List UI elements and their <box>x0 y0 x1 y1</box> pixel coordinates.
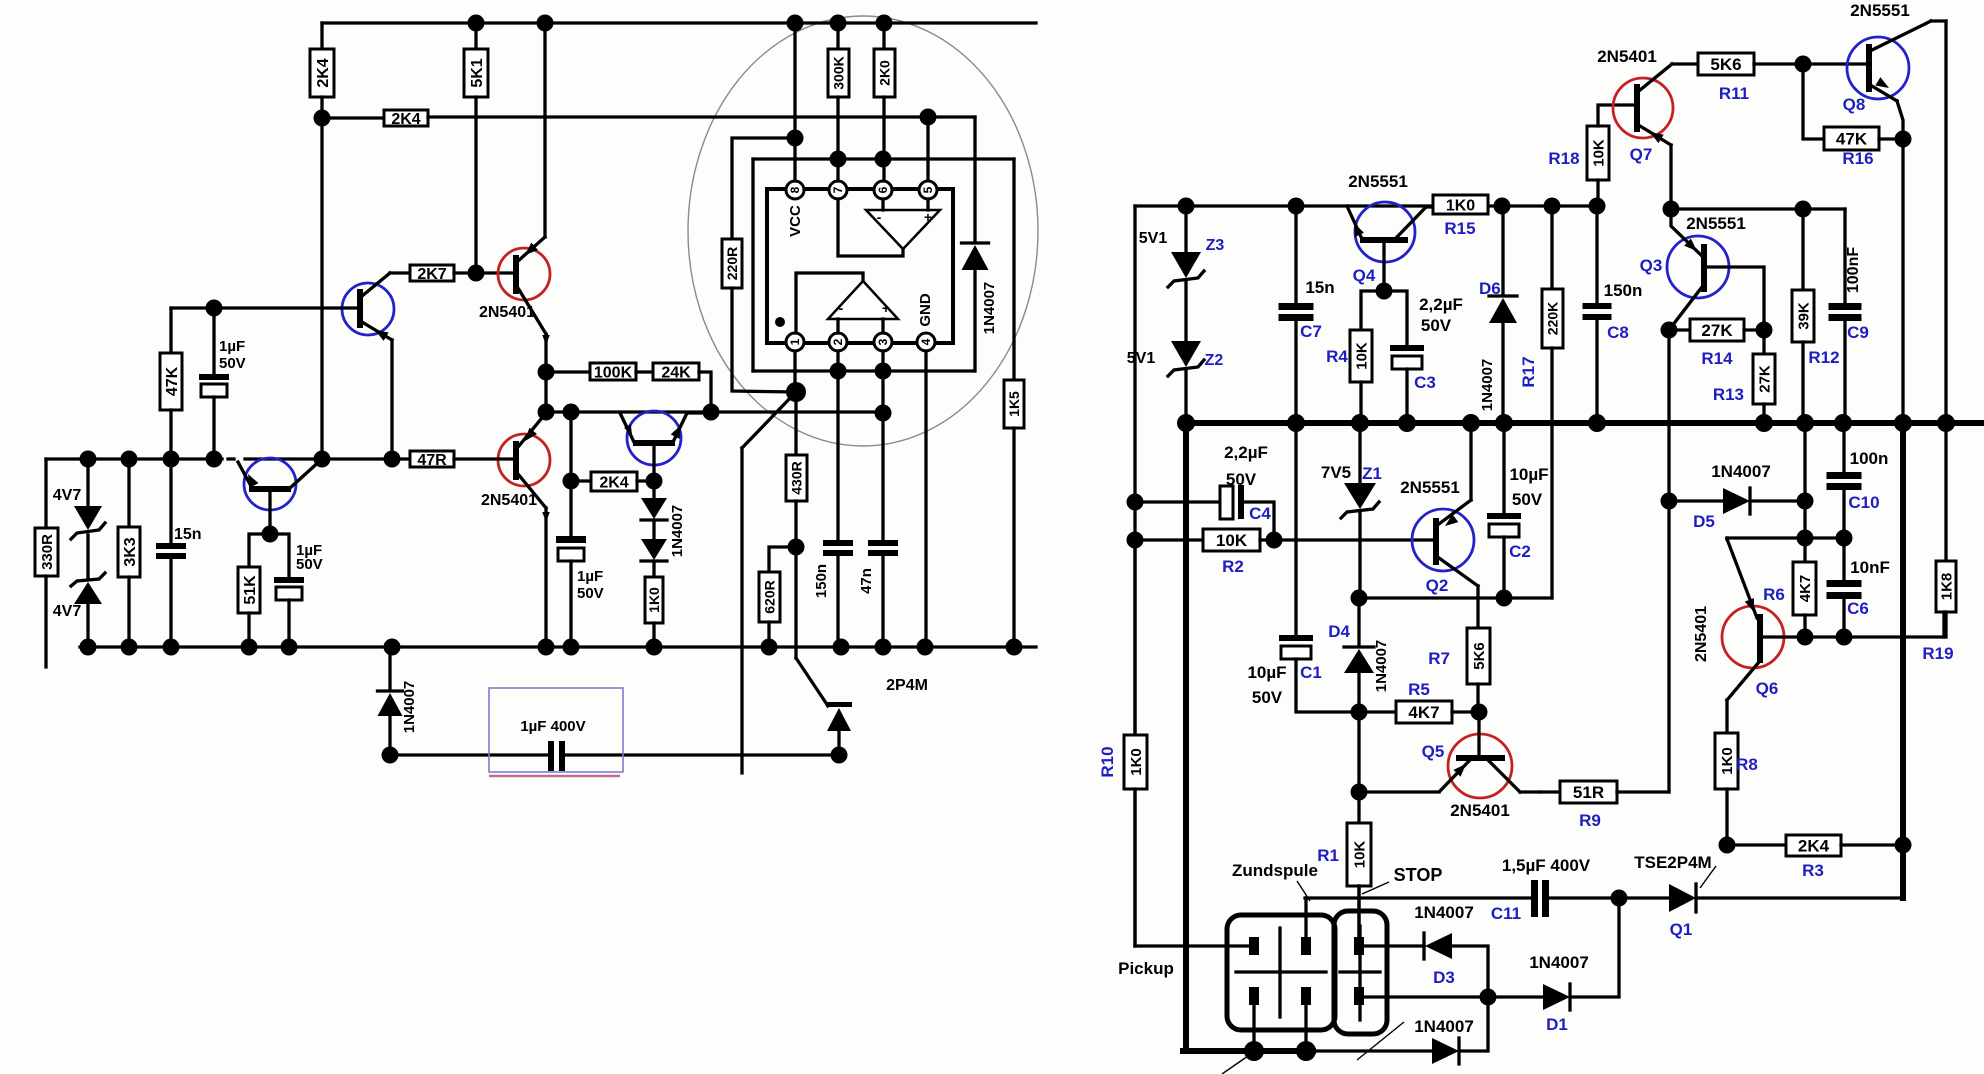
svg-text:D6: D6 <box>1479 279 1501 298</box>
wire Q3 collector to D5 and R9 <box>1661 330 1678 792</box>
svg-text:1N4007: 1N4007 <box>401 681 418 734</box>
svg-text:C8: C8 <box>1607 323 1629 342</box>
wire top rail right schematic <box>1135 198 1606 215</box>
svg-text:2N5551: 2N5551 <box>1850 1 1910 20</box>
svg-text:4: 4 <box>919 338 933 345</box>
svg-text:Q6: Q6 <box>1756 679 1779 698</box>
svg-text:D1: D1 <box>1546 1015 1568 1034</box>
zener 4V7 upper <box>53 459 105 539</box>
svg-text:1,5µF 400V: 1,5µF 400V <box>1502 856 1591 875</box>
svg-text:15n: 15n <box>174 526 202 543</box>
svg-text:100K: 100K <box>594 364 633 381</box>
wire trigger diagonal from pin1 <box>742 392 796 773</box>
svg-text:3: 3 <box>876 338 890 345</box>
svg-text:10K: 10K <box>1351 841 1368 869</box>
wire thick ground left leg <box>1183 423 1432 1051</box>
svg-text:1K0: 1K0 <box>1719 747 1736 775</box>
svg-text:50V: 50V <box>1226 470 1257 489</box>
pin 5 <box>919 181 937 199</box>
svg-text:C7: C7 <box>1300 322 1322 341</box>
diode D1 1N4007 <box>1488 898 1619 1034</box>
capacitor C10 100n <box>1827 423 1889 538</box>
svg-text:2N5551: 2N5551 <box>1686 214 1746 233</box>
svg-text:1N4007: 1N4007 <box>1373 640 1390 693</box>
svg-text:D3: D3 <box>1433 968 1455 987</box>
resistor R4 10K <box>1326 291 1384 423</box>
svg-text:4K7: 4K7 <box>1408 703 1439 722</box>
label Zundspule with callout <box>1232 861 1318 901</box>
svg-text:2N5551: 2N5551 <box>1348 172 1408 191</box>
svg-text:R10: R10 <box>1098 746 1117 777</box>
svg-text:TSE2P4M: TSE2P4M <box>1634 853 1711 872</box>
svg-text:8: 8 <box>788 186 802 193</box>
resistor 47R <box>410 451 513 469</box>
svg-text:5K6: 5K6 <box>1710 55 1741 74</box>
svg-text:1K0: 1K0 <box>1128 748 1145 776</box>
svg-text:27K: 27K <box>1701 321 1733 340</box>
svg-text:2K7: 2K7 <box>417 266 446 283</box>
zener Z3 5V1 <box>1139 206 1225 341</box>
resistor R10 1K0 <box>1098 540 1147 946</box>
transistor T2 red 2N5401 <box>479 23 550 372</box>
svg-text:1K5: 1K5 <box>1006 391 1022 417</box>
node 430R-620R <box>788 539 805 556</box>
svg-text:1N4007: 1N4007 <box>669 505 686 558</box>
svg-text:C4: C4 <box>1249 504 1271 523</box>
op-amp U2 lower triangle <box>796 273 898 333</box>
svg-text:R17: R17 <box>1519 356 1538 387</box>
resistor 3K3 <box>118 459 140 647</box>
wire STOP line y898 <box>1305 896 1531 899</box>
svg-text:2K4: 2K4 <box>599 474 628 491</box>
pin 1 <box>786 333 804 351</box>
resistor 24K <box>636 363 711 412</box>
transistor Q7 2N5401 red <box>1597 47 1698 209</box>
wire pin4 GND down <box>924 351 927 647</box>
pin 6 <box>874 181 892 199</box>
wire pin2-pin3 gnd-side node y371 <box>753 363 974 380</box>
svg-text:2K0: 2K0 <box>877 60 893 86</box>
svg-text:150n: 150n <box>1604 281 1643 300</box>
svg-text:7: 7 <box>831 186 845 193</box>
wire node y598 <box>1351 590 1553 607</box>
node 2K7-T2 base <box>468 265 485 282</box>
svg-text:1N4007: 1N4007 <box>1711 462 1771 481</box>
svg-text:R11: R11 <box>1719 84 1749 103</box>
svg-text:4K7: 4K7 <box>1797 575 1814 603</box>
transistor Q5 2N5401 red <box>1422 712 1540 820</box>
svg-text:15n: 15n <box>1305 278 1334 297</box>
capacitor C3 2,2uF 50V <box>1384 291 1463 423</box>
wire Q8 collector to R19 <box>1944 21 1947 561</box>
resistor R18 10K <box>1548 105 1633 206</box>
svg-text:4V7: 4V7 <box>53 603 82 620</box>
svg-text:10µF: 10µF <box>1247 663 1286 682</box>
wire VCC pin8 to top rail <box>787 23 804 181</box>
thyristor Q1 TSE2P4M <box>1619 853 1903 939</box>
capacitor C7 15n <box>1279 206 1335 423</box>
svg-text:D5: D5 <box>1693 512 1715 531</box>
pin 3 <box>874 333 892 351</box>
svg-text:1K8: 1K8 <box>1938 573 1955 601</box>
capacitor 15n <box>156 459 202 647</box>
svg-text:2N5401: 2N5401 <box>479 304 535 321</box>
svg-text:430R: 430R <box>789 461 805 494</box>
resistor R3 2K4 <box>1727 835 1903 880</box>
svg-text:R1: R1 <box>1317 846 1339 865</box>
diode D3 1N4007 <box>1363 903 1488 997</box>
resistor 2K4 vertical top-left <box>310 23 334 118</box>
zener Z2 5V1 <box>1127 341 1224 423</box>
capacitor C11 1,5uF 400V <box>1491 856 1628 923</box>
pin 2 <box>829 333 847 351</box>
resistor 47K <box>160 308 182 459</box>
svg-text:C9: C9 <box>1847 323 1869 342</box>
svg-text:7V5: 7V5 <box>1321 463 1351 482</box>
svg-text:27K: 27K <box>1756 365 1773 393</box>
svg-text:Q1: Q1 <box>1670 920 1693 939</box>
svg-text:10K: 10K <box>1590 139 1607 167</box>
resistor 2K4 horizontal <box>322 110 428 128</box>
svg-text:2K4: 2K4 <box>1798 837 1830 856</box>
svg-text:330R: 330R <box>39 534 56 570</box>
svg-text:5V1: 5V1 <box>1127 350 1156 367</box>
svg-text:R18: R18 <box>1548 149 1579 168</box>
svg-text:2,2µF: 2,2µF <box>1224 443 1268 462</box>
svg-text:C6: C6 <box>1847 599 1869 618</box>
diode D6 1N4007 <box>1479 206 1517 423</box>
resistor 2K4 at T3 base <box>563 412 663 491</box>
svg-text:Pickup: Pickup <box>1118 959 1174 978</box>
resistor R6 4K7 <box>1763 501 1816 646</box>
diode 1N4007 pair at T3 <box>641 481 686 577</box>
svg-text:C10: C10 <box>1848 493 1879 512</box>
wire D1 node <box>1363 989 1497 1006</box>
svg-text:2N5401: 2N5401 <box>481 492 537 509</box>
svg-text:51R: 51R <box>1573 783 1604 802</box>
capacitor 150n <box>813 351 853 647</box>
svg-text:1N4007: 1N4007 <box>1414 903 1474 922</box>
svg-text:10µF: 10µF <box>1509 465 1548 484</box>
diode 1N4007 bottom-left <box>378 647 419 764</box>
svg-text:C11: C11 <box>1491 904 1521 923</box>
pin 7 <box>829 181 847 199</box>
svg-text:2: 2 <box>831 338 845 345</box>
wire bottom rail left schematic <box>80 639 1037 656</box>
capacitor C1 10uF 50V <box>1247 423 1359 712</box>
capacitor 47n <box>858 351 898 647</box>
resistor R2 10K <box>1135 529 1433 576</box>
capacitor C6 10nF <box>1827 538 1890 646</box>
wire base rail y459 <box>46 451 410 468</box>
svg-text:47K: 47K <box>1836 130 1868 149</box>
svg-text:Q7: Q7 <box>1630 145 1653 164</box>
resistor 5K1 <box>464 23 488 273</box>
svg-text:220K: 220K <box>1545 302 1561 335</box>
resistor 1K5 <box>1004 159 1024 647</box>
svg-text:100nF: 100nF <box>1845 247 1862 293</box>
svg-text:2N5401: 2N5401 <box>1450 801 1510 820</box>
svg-text:Q8: Q8 <box>1843 95 1866 114</box>
svg-text:R3: R3 <box>1802 861 1824 880</box>
resistor 300K <box>828 23 849 181</box>
svg-text:D4: D4 <box>1328 622 1350 641</box>
resistor 330R <box>35 528 58 667</box>
svg-text:39K: 39K <box>1795 302 1812 330</box>
svg-text:VCC: VCC <box>787 205 804 237</box>
ignition coil Zundspule left block <box>1227 915 1335 1030</box>
svg-text:150n: 150n <box>813 564 830 598</box>
svg-text:51K: 51K <box>242 575 259 605</box>
resistor 51K <box>238 534 270 647</box>
capacitor C8 150n <box>1583 206 1643 423</box>
svg-text:C1: C1 <box>1300 663 1322 682</box>
wire Q5 emitter to R1 node <box>1351 712 1440 801</box>
resistor R5 4K7 <box>1359 680 1488 723</box>
wire SCR gate <box>796 547 828 706</box>
transistor Q6 2N5401 red <box>1693 538 1944 733</box>
svg-text:C2: C2 <box>1509 542 1531 561</box>
wire emitter line y209 <box>1663 201 1846 304</box>
svg-text:10nF: 10nF <box>1850 558 1890 577</box>
svg-text:-: - <box>839 300 844 316</box>
svg-text:C3: C3 <box>1414 373 1436 392</box>
ellipse around IC block <box>688 16 1038 446</box>
svg-text:Q4: Q4 <box>1353 266 1376 285</box>
svg-text:GND: GND <box>917 293 934 327</box>
resistor R9 51R <box>1540 781 1669 830</box>
svg-text:R4: R4 <box>1326 347 1348 366</box>
wire top rail left schematic <box>322 15 1036 32</box>
resistor R13 27K <box>1713 330 1775 423</box>
resistor R12 39K <box>1792 209 1840 423</box>
transistor Q2 2N5551 blue <box>1400 423 1478 628</box>
svg-text:5K1: 5K1 <box>469 58 486 87</box>
wire D5 to mid rail <box>1803 423 1806 501</box>
resistor 220R <box>722 138 795 392</box>
resistor R16 47K <box>1803 64 1912 168</box>
svg-text:1N4007: 1N4007 <box>981 282 998 335</box>
svg-text:100n: 100n <box>1850 449 1889 468</box>
svg-text:3K3: 3K3 <box>122 537 139 566</box>
svg-text:1: 1 <box>788 338 802 345</box>
svg-text:10K: 10K <box>1216 531 1248 550</box>
node T2 emitter <box>538 364 555 381</box>
svg-text:50V: 50V <box>1512 490 1543 509</box>
svg-text:R14: R14 <box>1701 349 1733 368</box>
transistor T4 red 2N5401 lower <box>481 413 550 647</box>
svg-text:50V: 50V <box>577 585 604 602</box>
wire mid rail thick <box>1177 414 1984 432</box>
ignition coil right block <box>1334 911 1387 1034</box>
label Pickup <box>1118 959 1174 978</box>
svg-text:R16: R16 <box>1842 149 1873 168</box>
op-amp U1 upper triangle <box>838 199 940 256</box>
pin 4 <box>917 333 935 351</box>
zener Z1 7V5 <box>1321 423 1382 598</box>
svg-text:R5: R5 <box>1408 680 1430 699</box>
resistor R7 5K6 <box>1428 628 1490 712</box>
svg-text:1µF: 1µF <box>219 338 245 355</box>
resistor 1K0 below diodes <box>645 577 663 647</box>
resistor R1 10K <box>1317 792 1371 938</box>
svg-text:2N5401: 2N5401 <box>1693 606 1710 662</box>
diode D5 1N4007 <box>1669 462 1814 531</box>
svg-text:Z3: Z3 <box>1206 237 1225 254</box>
svg-text:1K0: 1K0 <box>646 587 662 613</box>
thyristor 2P4M <box>826 677 928 764</box>
svg-text:47K: 47K <box>164 366 181 396</box>
svg-text:R2: R2 <box>1222 557 1244 576</box>
wire coil pins <box>1244 886 1359 1061</box>
svg-text:5V1: 5V1 <box>1139 230 1168 247</box>
svg-text:1K0: 1K0 <box>1446 197 1475 214</box>
resistor 2K0 <box>874 23 895 181</box>
wire lower return <box>390 753 840 756</box>
resistor R8 1K0 <box>1715 733 1758 854</box>
resistor 430R <box>786 392 807 547</box>
transistor Q4 2N5551 blue <box>1347 172 1433 300</box>
svg-text:1µF 400V: 1µF 400V <box>520 718 585 735</box>
wire Q8 emitter down <box>1901 139 1904 423</box>
callout coil bottom <box>1222 1056 1248 1074</box>
svg-text:R12: R12 <box>1808 348 1839 367</box>
svg-text:24K: 24K <box>661 364 691 381</box>
resistor R11 5K6 <box>1698 53 1867 103</box>
svg-text:620R: 620R <box>762 580 778 613</box>
wire left vertical supply x1135 <box>1127 206 1251 946</box>
resistor 620R <box>759 547 796 647</box>
svg-text:Q2: Q2 <box>1426 576 1449 595</box>
pin 8 <box>786 181 804 199</box>
svg-text:220R: 220R <box>724 247 740 280</box>
wire node y538 <box>1727 530 1853 547</box>
transistor T3 blue PNP middle <box>620 411 711 481</box>
capacitor C2 10uF 50V <box>1487 423 1549 598</box>
svg-text:2N5401: 2N5401 <box>1597 47 1657 66</box>
svg-text:2P4M: 2P4M <box>886 677 928 694</box>
svg-text:R6: R6 <box>1763 585 1785 604</box>
resistor R19 1K8 <box>1922 561 1956 663</box>
svg-text:2K4: 2K4 <box>391 111 420 128</box>
svg-text:Zundspule: Zundspule <box>1232 861 1318 880</box>
svg-text:Z1: Z1 <box>1362 464 1382 483</box>
svg-text:1N4007: 1N4007 <box>1414 1017 1474 1036</box>
node pin1 <box>786 351 806 402</box>
svg-text:+: + <box>882 300 890 316</box>
wire left border <box>44 459 47 528</box>
resistor 2K7 <box>390 265 514 283</box>
wire node y412 <box>538 372 892 422</box>
label STOP with callout <box>1362 865 1442 894</box>
svg-text:1µF: 1µF <box>577 568 603 585</box>
capacitor C9 100nF <box>1829 247 1869 423</box>
wire pin2 wrap-around <box>753 151 1014 372</box>
op-amp IC body <box>767 189 953 343</box>
svg-text:R19: R19 <box>1922 644 1953 663</box>
svg-text:50V: 50V <box>296 556 323 573</box>
diode 1N4007 right of IC <box>962 243 999 371</box>
svg-text:R8: R8 <box>1736 755 1758 774</box>
svg-text:Q3: Q3 <box>1640 256 1663 275</box>
svg-text:R9: R9 <box>1579 811 1601 830</box>
svg-text:R7: R7 <box>1428 649 1450 668</box>
svg-text:STOP: STOP <box>1394 865 1443 885</box>
diode D2 1N4007 bottom <box>1357 997 1488 1064</box>
capacitor C4 2,2uF 50V <box>1135 443 1283 549</box>
svg-text:5: 5 <box>921 186 935 193</box>
zener 4V7 lower <box>53 535 105 647</box>
svg-text:2K4: 2K4 <box>315 58 332 87</box>
capacitor 1uF 50V below node <box>556 481 604 647</box>
svg-text:1N4007: 1N4007 <box>1479 359 1496 412</box>
transistor Q3 2N5551 blue <box>1640 209 1764 330</box>
svg-text:1N4007: 1N4007 <box>1529 953 1589 972</box>
svg-text:10K: 10K <box>1353 342 1370 370</box>
svg-text:R15: R15 <box>1444 219 1475 238</box>
wire long vertical x322 <box>320 118 323 459</box>
capacitor 1uF 400V in blue box <box>489 688 623 776</box>
svg-text:-: - <box>877 209 882 225</box>
svg-text:300K: 300K <box>831 56 847 89</box>
svg-text:Q5: Q5 <box>1422 742 1445 761</box>
resistor R14 27K <box>1661 319 1773 368</box>
wire rail2 to 1N4007 <box>428 109 975 242</box>
svg-text:47n: 47n <box>858 568 875 594</box>
svg-text:R13: R13 <box>1713 385 1744 404</box>
svg-text:5K6: 5K6 <box>1471 642 1488 670</box>
diode D4 1N4007 <box>1328 598 1390 721</box>
svg-text:50V: 50V <box>219 355 246 372</box>
capacitor 1uF 50V at 51K <box>270 534 323 647</box>
svg-text:6: 6 <box>876 186 890 193</box>
node T3b collector <box>262 526 279 543</box>
resistor R15 1K0 <box>1433 195 1488 238</box>
svg-text:Z2: Z2 <box>1205 352 1224 369</box>
resistor R17 220K <box>1519 206 1563 598</box>
svg-text:47R: 47R <box>417 452 447 469</box>
svg-text:50V: 50V <box>1421 316 1452 335</box>
node rail2 junction <box>314 110 331 127</box>
svg-text:2,2µF: 2,2µF <box>1419 295 1463 314</box>
transistor T1 blue NPN <box>171 273 394 459</box>
wire thick right vertical <box>1895 423 1912 898</box>
resistor 100K <box>546 363 636 381</box>
svg-text:4V7: 4V7 <box>53 487 82 504</box>
svg-text:2N5551: 2N5551 <box>1400 478 1460 497</box>
transistor T3b blue PNP lower-left <box>228 458 322 534</box>
svg-text:50V: 50V <box>1252 688 1283 707</box>
capacitor 1uF 50V at T1 base <box>199 300 246 460</box>
transistor Q8 2N5551 blue <box>1843 1 1946 139</box>
